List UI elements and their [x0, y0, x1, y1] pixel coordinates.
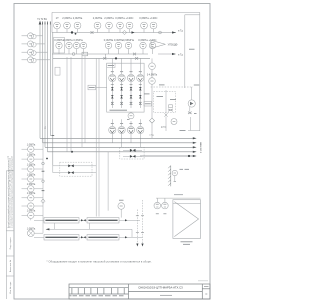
instrument LI3	[28, 49, 34, 55]
format note above title block	[198, 280, 208, 282]
taps to risers	[22, 35, 28, 37]
riser through instruments	[151, 58, 153, 63]
instrument PI7	[141, 22, 148, 29]
instrument TI2	[150, 22, 157, 29]
stubs center box	[123, 150, 142, 156]
riser top ticks	[43, 22, 51, 25]
check valve dark on manifold	[132, 31, 135, 34]
junction dot main4	[71, 151, 73, 153]
label elevator	[168, 44, 178, 47]
svg-text:1,0МПа: 1,0МПа	[27, 154, 36, 157]
emergency tank	[173, 200, 201, 239]
svg-text:1,0МПа: 1,0МПа	[27, 210, 36, 213]
instrument PI5	[106, 22, 113, 29]
page frame	[14, 4, 210, 300]
instrument PI3	[74, 22, 81, 29]
wire riser T2	[42, 23, 44, 143]
left margin column lines	[6, 171, 14, 299]
valve 2 on suction pipe	[135, 57, 138, 60]
meter circle bottom center	[118, 203, 125, 210]
secondary drop line	[165, 90, 167, 113]
junction dot main5	[188, 155, 190, 157]
label arrow pipe2	[178, 54, 183, 56]
right drop line	[190, 117, 192, 131]
tick on riser T6	[51, 135, 54, 137]
solenoid valve	[169, 105, 173, 108]
label box R2b	[87, 235, 119, 240]
stubs right of bottom column	[34, 148, 43, 150]
label f3m	[159, 84, 165, 86]
svg-text:в Тд: в Тд	[178, 54, 183, 56]
svg-text:в Тд: в Тд	[178, 30, 183, 32]
wire riser T5	[49, 24, 51, 136]
meter tag	[119, 199, 124, 201]
manifold pipe 1	[52, 32, 176, 34]
meter stem	[120, 209, 122, 217]
left stub pipe	[96, 87, 107, 89]
main 5 short	[140, 155, 193, 157]
label box R1a	[44, 218, 79, 223]
junction dot on suction pipe	[115, 57, 117, 59]
flow sight glass	[27, 230, 34, 237]
svg-text:1,0МПа: 1,0МПа	[27, 163, 36, 166]
instrument PI13	[115, 42, 121, 48]
label a Td bottom	[149, 135, 154, 137]
main 3	[45, 146, 193, 148]
fitting circle on pipe2	[72, 53, 75, 56]
svg-text:Подп. и дата: Подп. и дата	[10, 237, 12, 250]
drain ticks	[136, 216, 144, 233]
instrument PI17	[149, 78, 156, 85]
arrowhead main3	[193, 146, 197, 148]
title block small cell texts	[70, 295, 124, 297]
instrument TI3	[149, 42, 155, 48]
valve on suction pipe	[103, 57, 106, 60]
elevator nozzle	[151, 40, 166, 48]
wire riser T6	[52, 33, 54, 166]
instrument LI2	[28, 41, 34, 47]
drain dashed lines	[137, 200, 142, 246]
dark valve c2	[130, 155, 136, 158]
instrument BL5	[28, 186, 34, 192]
value labels row2	[54, 38, 156, 42]
expansion tank tag	[127, 119, 130, 121]
instrument BL7	[28, 203, 34, 209]
wire drop D	[84, 56, 86, 143]
riser bottom-left	[42, 138, 44, 233]
strainer diamond	[150, 118, 155, 123]
pump tags	[111, 71, 142, 73]
title block outer	[69, 284, 210, 299]
label box R1b	[87, 218, 119, 223]
instrument PI4	[94, 22, 101, 29]
instrument BL6	[28, 195, 34, 201]
suction pipe	[53, 57, 150, 59]
taps left of bottom column	[22, 138, 44, 233]
left margin cell labels (rotated)	[9, 237, 12, 294]
arrow out pipe2	[172, 53, 176, 55]
pump discharge stems	[111, 82, 113, 108]
instrument BL1	[28, 146, 34, 152]
pump N2	[118, 74, 125, 81]
pump M1	[109, 126, 116, 133]
pump row2 stems down to mains	[111, 134, 113, 143]
pipe2 extension to arrow	[158, 53, 172, 55]
tank inlet label	[174, 194, 183, 196]
arrowhead main2	[193, 142, 197, 144]
left stub label box	[88, 85, 96, 90]
pump unit bottom label	[110, 109, 128, 111]
label f3m 2	[144, 93, 150, 95]
instrument BL4	[28, 176, 34, 182]
circulation pump P1	[188, 100, 195, 107]
svg-text:1,0МПа: 1,0МПа	[27, 144, 36, 147]
tank chevron	[174, 202, 198, 237]
funnel drain circle	[172, 170, 177, 175]
letters bottom-left column	[29, 149, 32, 215]
svg-text:в Тд: в Тд	[149, 135, 154, 137]
arrowhead main5	[193, 155, 197, 157]
valve marks between boxes row1	[81, 219, 86, 221]
label f10m upper	[189, 48, 195, 50]
instrument PI11	[80, 42, 86, 48]
instrument PI15	[140, 42, 146, 48]
value labels row1	[56, 16, 158, 20]
enclosure box left edge	[51, 12, 53, 32]
svg-text:Т1 Т2 В1: Т1 Т2 В1	[37, 19, 47, 21]
pump M2	[118, 126, 125, 133]
pump unit box	[107, 63, 144, 112]
instrument BL8	[28, 212, 34, 218]
wall hatched bar	[168, 166, 171, 187]
pump inner marks	[110, 76, 115, 81]
pump unit box label tab	[107, 63, 115, 67]
instrument LI4	[28, 57, 34, 63]
main 1	[40, 137, 193, 139]
open circle fitting on manifold	[159, 31, 162, 34]
pipe 2	[52, 53, 148, 55]
funnel label	[180, 168, 184, 170]
pump P1 riser	[191, 87, 193, 100]
diamond fitting bottom column	[41, 199, 45, 203]
tick on pipe2	[105, 54, 107, 58]
instrument PI2	[64, 22, 71, 29]
svg-text:1,0МПа: 1,0МПа	[27, 192, 36, 195]
label f25 second	[161, 125, 167, 128]
arrowhead main1	[193, 137, 197, 139]
label f25 box	[144, 102, 152, 107]
inner boundary right	[184, 15, 186, 88]
diamond fitting on manifold	[122, 30, 126, 34]
left margin certification rotated text block	[7, 155, 13, 228]
arrow out to T2	[172, 31, 176, 33]
instrument BL2	[28, 156, 34, 162]
arrow up into manifold	[39, 21, 42, 25]
svg-text:1,0МПа: 1,0МПа	[27, 183, 36, 186]
flange ticks under pumps	[111, 83, 142, 85]
instrument PI16	[149, 63, 156, 70]
sensor group box	[54, 38, 65, 54]
check valves dark under pumps	[111, 87, 142, 98]
label box R2a	[44, 235, 79, 240]
main 2	[43, 142, 194, 144]
svg-text:к системе: к системе	[200, 141, 203, 153]
svg-text:1,0МПа: 1,0МПа	[27, 228, 36, 231]
instrument BL3	[28, 166, 34, 172]
instrument PI8	[56, 42, 62, 48]
pump N3	[127, 74, 134, 81]
pump suction stems	[111, 58, 113, 74]
arrowhead main4	[193, 151, 197, 153]
wire riser T1	[39, 23, 41, 138]
instrument letters row1	[56, 25, 156, 27]
instrument letters row2	[58, 45, 154, 47]
pump M4	[137, 126, 144, 133]
enclosure box top edge	[52, 11, 200, 13]
riser bundle from top manifold down to mains	[40, 23, 53, 166]
junction dot on manifold	[71, 31, 73, 33]
main 4	[48, 151, 194, 153]
wire drop G	[107, 152, 109, 211]
wire riser T3	[44, 23, 46, 147]
label PI16	[147, 75, 158, 77]
value labels bottom-left column	[27, 144, 36, 231]
pump M3	[127, 126, 134, 133]
wire drop F	[98, 58, 100, 216]
enclosure box right edge	[199, 12, 201, 131]
label v T2	[178, 30, 183, 32]
instrument PI6	[117, 22, 124, 29]
svg-text:1,0МПа: 1,0МПа	[27, 173, 36, 176]
small label box on riser	[55, 67, 60, 75]
tank level line	[173, 202, 201, 204]
label T1 header	[37, 19, 47, 21]
wire drop C	[81, 56, 83, 147]
valve bowties under pumps	[111, 102, 142, 104]
wire drop A	[66, 57, 68, 152]
pump N1	[109, 74, 116, 81]
label f10	[180, 130, 186, 132]
valve on manifold	[91, 31, 94, 34]
pump N4	[137, 74, 144, 81]
dashed supply line	[151, 86, 193, 88]
svg-text:УП50ДФ: УП50ДФ	[168, 44, 178, 47]
instrument TI1	[126, 22, 133, 29]
title block doc number text	[138, 286, 183, 290]
label f10 top right	[194, 84, 199, 86]
valve on pipe2	[133, 53, 136, 56]
rotated label k sisteme	[200, 141, 203, 153]
instrument PI1	[54, 22, 61, 29]
pump row2 stems up	[111, 119, 113, 126]
instrument PI10	[73, 42, 79, 48]
pump pair tags	[156, 213, 167, 215]
drain pump circle	[171, 119, 177, 125]
label in dashed box	[157, 96, 164, 98]
wire drop B	[70, 57, 72, 152]
svg-text:СНКЗ-010/19-ЦТП-МАР3А-АТХ.С3: СНКЗ-010/19-ЦТП-МАР3А-АТХ.С3	[138, 286, 183, 290]
funnel stem	[174, 176, 176, 182]
crossing drop wires	[67, 56, 108, 217]
dark valve pair 2	[68, 171, 74, 174]
small box fitting on pipe2	[82, 52, 88, 56]
letters left column	[29, 36, 32, 60]
drain arrowheads	[136, 244, 138, 247]
wire drop E	[95, 58, 97, 216]
instrument PI12	[105, 42, 111, 48]
pump pair stems	[156, 198, 158, 202]
valve under P1	[188, 112, 192, 114]
expansion tank	[128, 113, 134, 119]
wire riser T4	[47, 23, 49, 152]
dashed equipment box	[154, 91, 176, 112]
dark valve c1	[130, 149, 136, 152]
stems row1	[56, 29, 58, 33]
pump pair circles	[154, 198, 201, 209]
stems row2	[58, 49, 60, 54]
instrument PI14	[125, 42, 131, 48]
instrument PI9	[66, 42, 72, 48]
dark valve pair 1	[68, 164, 74, 167]
footnote	[47, 260, 152, 264]
instrument LI1	[28, 33, 34, 39]
pipe row 1	[31, 219, 143, 238]
valve on secondary drop	[165, 113, 168, 117]
tank label	[181, 242, 193, 245]
svg-text:3-4,5МПа: 3-4,5МПа	[147, 75, 158, 77]
riser fittings	[42, 162, 45, 165]
left arrow on recirc line	[46, 228, 50, 230]
